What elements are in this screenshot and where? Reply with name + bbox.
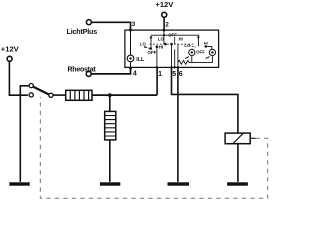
svg-text:HI: HI xyxy=(204,40,208,45)
ground xyxy=(227,182,248,185)
terminal Rheostat xyxy=(86,71,91,76)
terminal +12V top xyxy=(162,12,167,17)
svg-text:4: 4 xyxy=(133,70,137,77)
pivot arrow xyxy=(150,35,153,38)
wire off drop xyxy=(174,49,176,67)
switch module U1 box xyxy=(125,30,219,67)
ground xyxy=(168,182,190,185)
relay contact pole lower xyxy=(29,93,33,97)
node pin2 plate xyxy=(163,34,165,36)
wire xyxy=(163,17,165,30)
node bottom edge pin5 xyxy=(170,66,172,68)
node junction xyxy=(108,93,112,97)
wire stub xyxy=(250,137,255,139)
relay contact pole upper xyxy=(29,84,33,88)
switch lever left xyxy=(144,46,146,48)
wire xyxy=(191,56,193,63)
svg-text:ILL: ILL xyxy=(136,57,145,63)
wire pin4 internal xyxy=(130,62,132,68)
lamp ILL xyxy=(127,55,134,62)
svg-text:LO: LO xyxy=(140,42,147,47)
switch plate top line xyxy=(151,35,199,46)
wire xyxy=(9,61,28,95)
indicator lamp LO xyxy=(185,49,195,58)
wire pin4 external xyxy=(91,67,130,74)
svg-text:2: 2 xyxy=(165,21,169,28)
wire xyxy=(109,140,111,182)
position dash line xyxy=(150,43,195,45)
wire xyxy=(19,95,21,182)
svg-text:+12V: +12V xyxy=(155,0,174,9)
node pin3 xyxy=(129,29,132,32)
svg-text:6: 6 xyxy=(179,71,183,78)
ground xyxy=(100,182,120,185)
mechanical linkage dashed xyxy=(40,97,267,198)
resistor R1 xyxy=(66,90,92,100)
wire pin1 riser xyxy=(156,67,158,95)
contact dot LO left xyxy=(149,47,152,50)
lever dash right xyxy=(189,46,195,48)
wire xyxy=(211,56,213,63)
contact square xyxy=(197,36,199,38)
wire pin5 internal xyxy=(171,44,173,67)
svg-text:Rheostat: Rheostat xyxy=(68,66,97,73)
indicator lamp HI xyxy=(206,49,216,58)
svg-text:HI: HI xyxy=(159,45,163,50)
relay contact lever xyxy=(33,87,49,95)
wire pin1 internal xyxy=(156,47,158,68)
ground xyxy=(9,182,29,185)
svg-text:LO: LO xyxy=(158,37,165,42)
node bottom edge xyxy=(174,66,176,68)
svg-text:OFF: OFF xyxy=(148,50,157,55)
node bottom edge pin6 xyxy=(177,66,179,68)
svg-text:+12V: +12V xyxy=(1,45,20,54)
node bottom edge pin1 xyxy=(156,66,158,68)
wire pin5 to relay xyxy=(172,67,238,133)
wire pin3 internal xyxy=(130,30,132,55)
wire pin6 internal xyxy=(177,44,179,67)
svg-text:LichtPlus: LichtPlus xyxy=(67,27,98,36)
contact dot HI xyxy=(156,45,159,48)
svg-text:3: 3 xyxy=(132,21,136,28)
terminal LichtPlus xyxy=(86,20,91,25)
wire xyxy=(20,86,29,95)
wire xyxy=(53,94,65,96)
wire pin2 internal xyxy=(163,30,165,44)
wire off pointer xyxy=(174,37,176,44)
wire pivot riser xyxy=(150,37,152,49)
svg-text:OFF: OFF xyxy=(196,50,205,55)
resistor R2 xyxy=(105,111,116,139)
terminal +12V left xyxy=(7,56,12,61)
node pin2 xyxy=(163,29,166,32)
node on dash xyxy=(170,43,173,46)
svg-text:HI: HI xyxy=(179,37,183,42)
lever dash xyxy=(146,47,150,48)
svg-text:OFF: OFF xyxy=(168,33,177,38)
wire xyxy=(237,144,239,182)
contact dot right xyxy=(205,45,208,48)
svg-text:1: 1 xyxy=(158,71,162,78)
wire xyxy=(206,46,212,49)
node on dash xyxy=(164,43,167,46)
svg-text:5: 5 xyxy=(172,71,176,78)
pin4 arrow xyxy=(129,68,132,72)
resistor R3 zigzag xyxy=(178,60,213,64)
relay contact common xyxy=(49,93,53,97)
relay coil K1 xyxy=(225,133,250,144)
wire xyxy=(109,95,111,111)
wire xyxy=(91,22,130,30)
wire xyxy=(92,94,157,96)
wire pin6 to ground xyxy=(177,67,179,181)
